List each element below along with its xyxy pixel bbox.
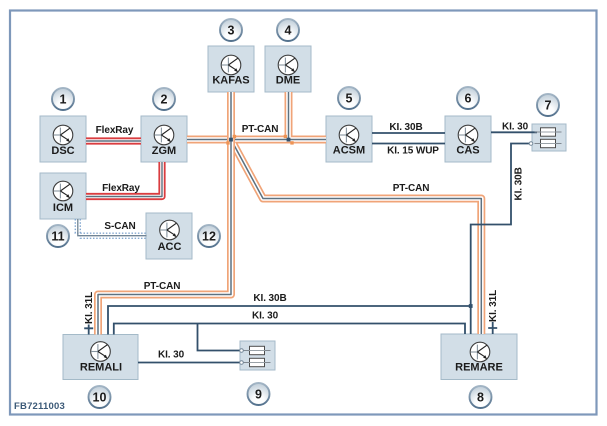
box KAFAS xyxy=(208,46,254,92)
fuse box 9 xyxy=(240,341,275,370)
node J1 orange cross dot upper xyxy=(233,135,236,138)
callout circle 10 REMALI xyxy=(89,386,111,408)
fuse 7 lower xyxy=(535,139,562,147)
box CAS xyxy=(445,116,491,162)
svg-text:ICM: ICM xyxy=(53,202,73,214)
terminal KI.31L REMALI xyxy=(84,325,93,335)
svg-text:1: 1 xyxy=(60,93,67,107)
callout circle 7 fuse box xyxy=(537,94,559,116)
svg-text:PT-CAN: PT-CAN xyxy=(393,183,430,194)
svg-text:4: 4 xyxy=(285,24,292,38)
callout circle 5 ACSM xyxy=(338,87,360,109)
fuse box 7 xyxy=(532,124,566,151)
bus FlexRay DSC-ZGM xyxy=(86,92,481,335)
wire KI.30 branch to fuse9 upper xyxy=(198,324,240,351)
box REMALI xyxy=(63,335,138,380)
node J1 orange cross dot lower xyxy=(226,141,229,144)
svg-text:KI. 30B: KI. 30B xyxy=(389,122,422,133)
svg-text:6: 6 xyxy=(465,92,472,106)
svg-text:KI. 30: KI. 30 xyxy=(502,122,529,133)
box ICM xyxy=(40,173,86,219)
fuse 9 lower xyxy=(244,358,271,366)
svg-text:12: 12 xyxy=(202,230,216,244)
svg-text:9: 9 xyxy=(255,388,262,402)
wire FlexRay ICM-ZGM center xyxy=(86,162,162,197)
node J2 xyxy=(287,138,291,142)
node J1 xyxy=(229,138,233,142)
callout circle 11 S-CAN xyxy=(47,225,69,247)
svg-text:PT-CAN: PT-CAN xyxy=(242,124,279,135)
node J2 orange cross dot lower xyxy=(290,141,293,144)
svg-text:3: 3 xyxy=(228,24,235,38)
box DSC xyxy=(40,116,86,162)
wire KI.30 CAS-fuse7 xyxy=(491,131,537,133)
wire PT-CAN KAFAS-REMALI white gap xyxy=(98,92,231,335)
svg-text:REMALI: REMALI xyxy=(80,362,122,374)
bus S-CAN ICM-ACC center line xyxy=(78,219,147,236)
node J2 orange cross dot upper xyxy=(284,135,287,138)
bus PT-CAN DME branch xyxy=(285,92,293,140)
icon ACSM xyxy=(339,125,359,145)
bus S-CAN ICM-ACC dotted line 2 xyxy=(80,219,146,238)
terminal circle fuse9 lower xyxy=(240,361,244,365)
wire KI.15WUP ACSM-CAS xyxy=(372,143,445,145)
wire PT-CAN REMARE center xyxy=(231,140,481,335)
box ACC xyxy=(146,213,192,259)
svg-text:REMARE: REMARE xyxy=(455,362,503,374)
svg-text:DME: DME xyxy=(276,75,300,87)
svg-text:2: 2 xyxy=(161,93,168,107)
wire KI.30 REMALI-fuse9 lower xyxy=(138,362,240,364)
svg-text:8: 8 xyxy=(477,391,484,405)
svg-text:KI. 15 WUP: KI. 15 WUP xyxy=(387,146,439,157)
wire PT-CAN REMARE white gap xyxy=(231,140,481,335)
terminal KI.31L REMARE xyxy=(488,322,497,334)
svg-text:DSC: DSC xyxy=(51,145,74,157)
svg-text:ACC: ACC xyxy=(158,241,182,253)
icon CAS xyxy=(458,125,478,145)
box DME xyxy=(265,46,311,92)
svg-text:KI. 30B: KI. 30B xyxy=(253,293,286,304)
svg-text:5: 5 xyxy=(346,92,353,106)
wire KI.30B fuse7 to REMARE xyxy=(471,144,533,335)
callout circle 8 REMARE xyxy=(470,386,492,408)
svg-text:PT-CAN: PT-CAN xyxy=(144,281,181,292)
wire KI.30B REMALI long xyxy=(108,306,471,335)
svg-text:KI. 31L: KI. 31L xyxy=(84,292,95,324)
svg-text:CAS: CAS xyxy=(456,145,479,157)
icon ZGM xyxy=(154,125,174,145)
box ZGM xyxy=(141,116,187,162)
wire PT-CAN ZGM-ACSM white gap xyxy=(187,137,326,142)
callout circle 2 ZGM xyxy=(153,88,175,110)
svg-text:S-CAN: S-CAN xyxy=(104,221,135,232)
terminal circle fuse9 upper xyxy=(240,349,244,353)
icon ICM xyxy=(53,181,73,201)
svg-text:7: 7 xyxy=(545,99,552,113)
bus FlexRay ICM-ZGM xyxy=(86,162,162,197)
svg-text:FB7211003: FB7211003 xyxy=(14,401,65,412)
bus PT-CAN ZGM-ACSM xyxy=(187,136,326,144)
wire patch: PT-CAN vertical continuity at J1 xyxy=(227,130,235,165)
svg-text:10: 10 xyxy=(93,391,107,405)
icon REMALI xyxy=(91,342,111,362)
svg-text:ACSM: ACSM xyxy=(333,145,365,157)
callout circle 9 fuse box xyxy=(248,383,270,405)
fuse 7 upper xyxy=(535,128,562,136)
wire FlexRay ICM-ZGM white gap xyxy=(86,162,162,197)
terminal circle fuse7 xyxy=(529,142,533,146)
icon DSC xyxy=(53,125,73,145)
bus S-CAN ICM-ACC dotted line 1 xyxy=(75,219,146,233)
wire FlexRay DSC-ZGM center xyxy=(86,140,141,142)
bus PT-CAN branch to REMARE xyxy=(231,140,481,335)
svg-text:KI. 30B: KI. 30B xyxy=(514,167,525,200)
svg-text:KAFAS: KAFAS xyxy=(212,75,249,87)
svg-text:KI. 30: KI. 30 xyxy=(252,311,279,322)
wire FlexRay DSC-ZGM white gap xyxy=(86,139,141,143)
callout circle 4 DME xyxy=(277,19,299,41)
svg-text:KI. 30: KI. 30 xyxy=(158,350,185,361)
wire PT-CAN KAFAS-REMALI center xyxy=(98,92,231,335)
svg-text:FlexRay: FlexRay xyxy=(96,125,134,136)
wire PT-CAN ZGM-ACSM center xyxy=(187,139,326,141)
svg-text:11: 11 xyxy=(51,230,64,244)
callout circle 12 ACC xyxy=(198,225,220,247)
wire PT-CAN DME center xyxy=(288,92,290,140)
callout circle 3 KAFAS xyxy=(220,19,242,41)
callout circle 1 DSC xyxy=(52,88,74,110)
box ACSM xyxy=(326,116,372,162)
fuse 9 upper xyxy=(244,346,271,354)
svg-text:ZGM: ZGM xyxy=(152,145,176,157)
svg-text:FlexRay: FlexRay xyxy=(102,183,140,194)
wire KI.30 long REMALI-REMARE xyxy=(114,324,465,335)
wire KI.30B ACSM-CAS xyxy=(84,132,537,362)
box REMARE xyxy=(441,334,517,380)
bus PT-CAN KAFAS down to REMALI xyxy=(98,92,231,335)
node KI.30B junction xyxy=(469,304,473,308)
icon REMARE xyxy=(470,342,490,362)
icon DME xyxy=(278,55,298,75)
svg-text:KI. 31L: KI. 31L xyxy=(488,290,499,322)
icon KAFAS xyxy=(221,55,241,75)
wire PT-CAN DME white gap xyxy=(286,92,291,140)
icon ACC xyxy=(160,220,180,240)
callout circle 6 CAS xyxy=(457,87,479,109)
